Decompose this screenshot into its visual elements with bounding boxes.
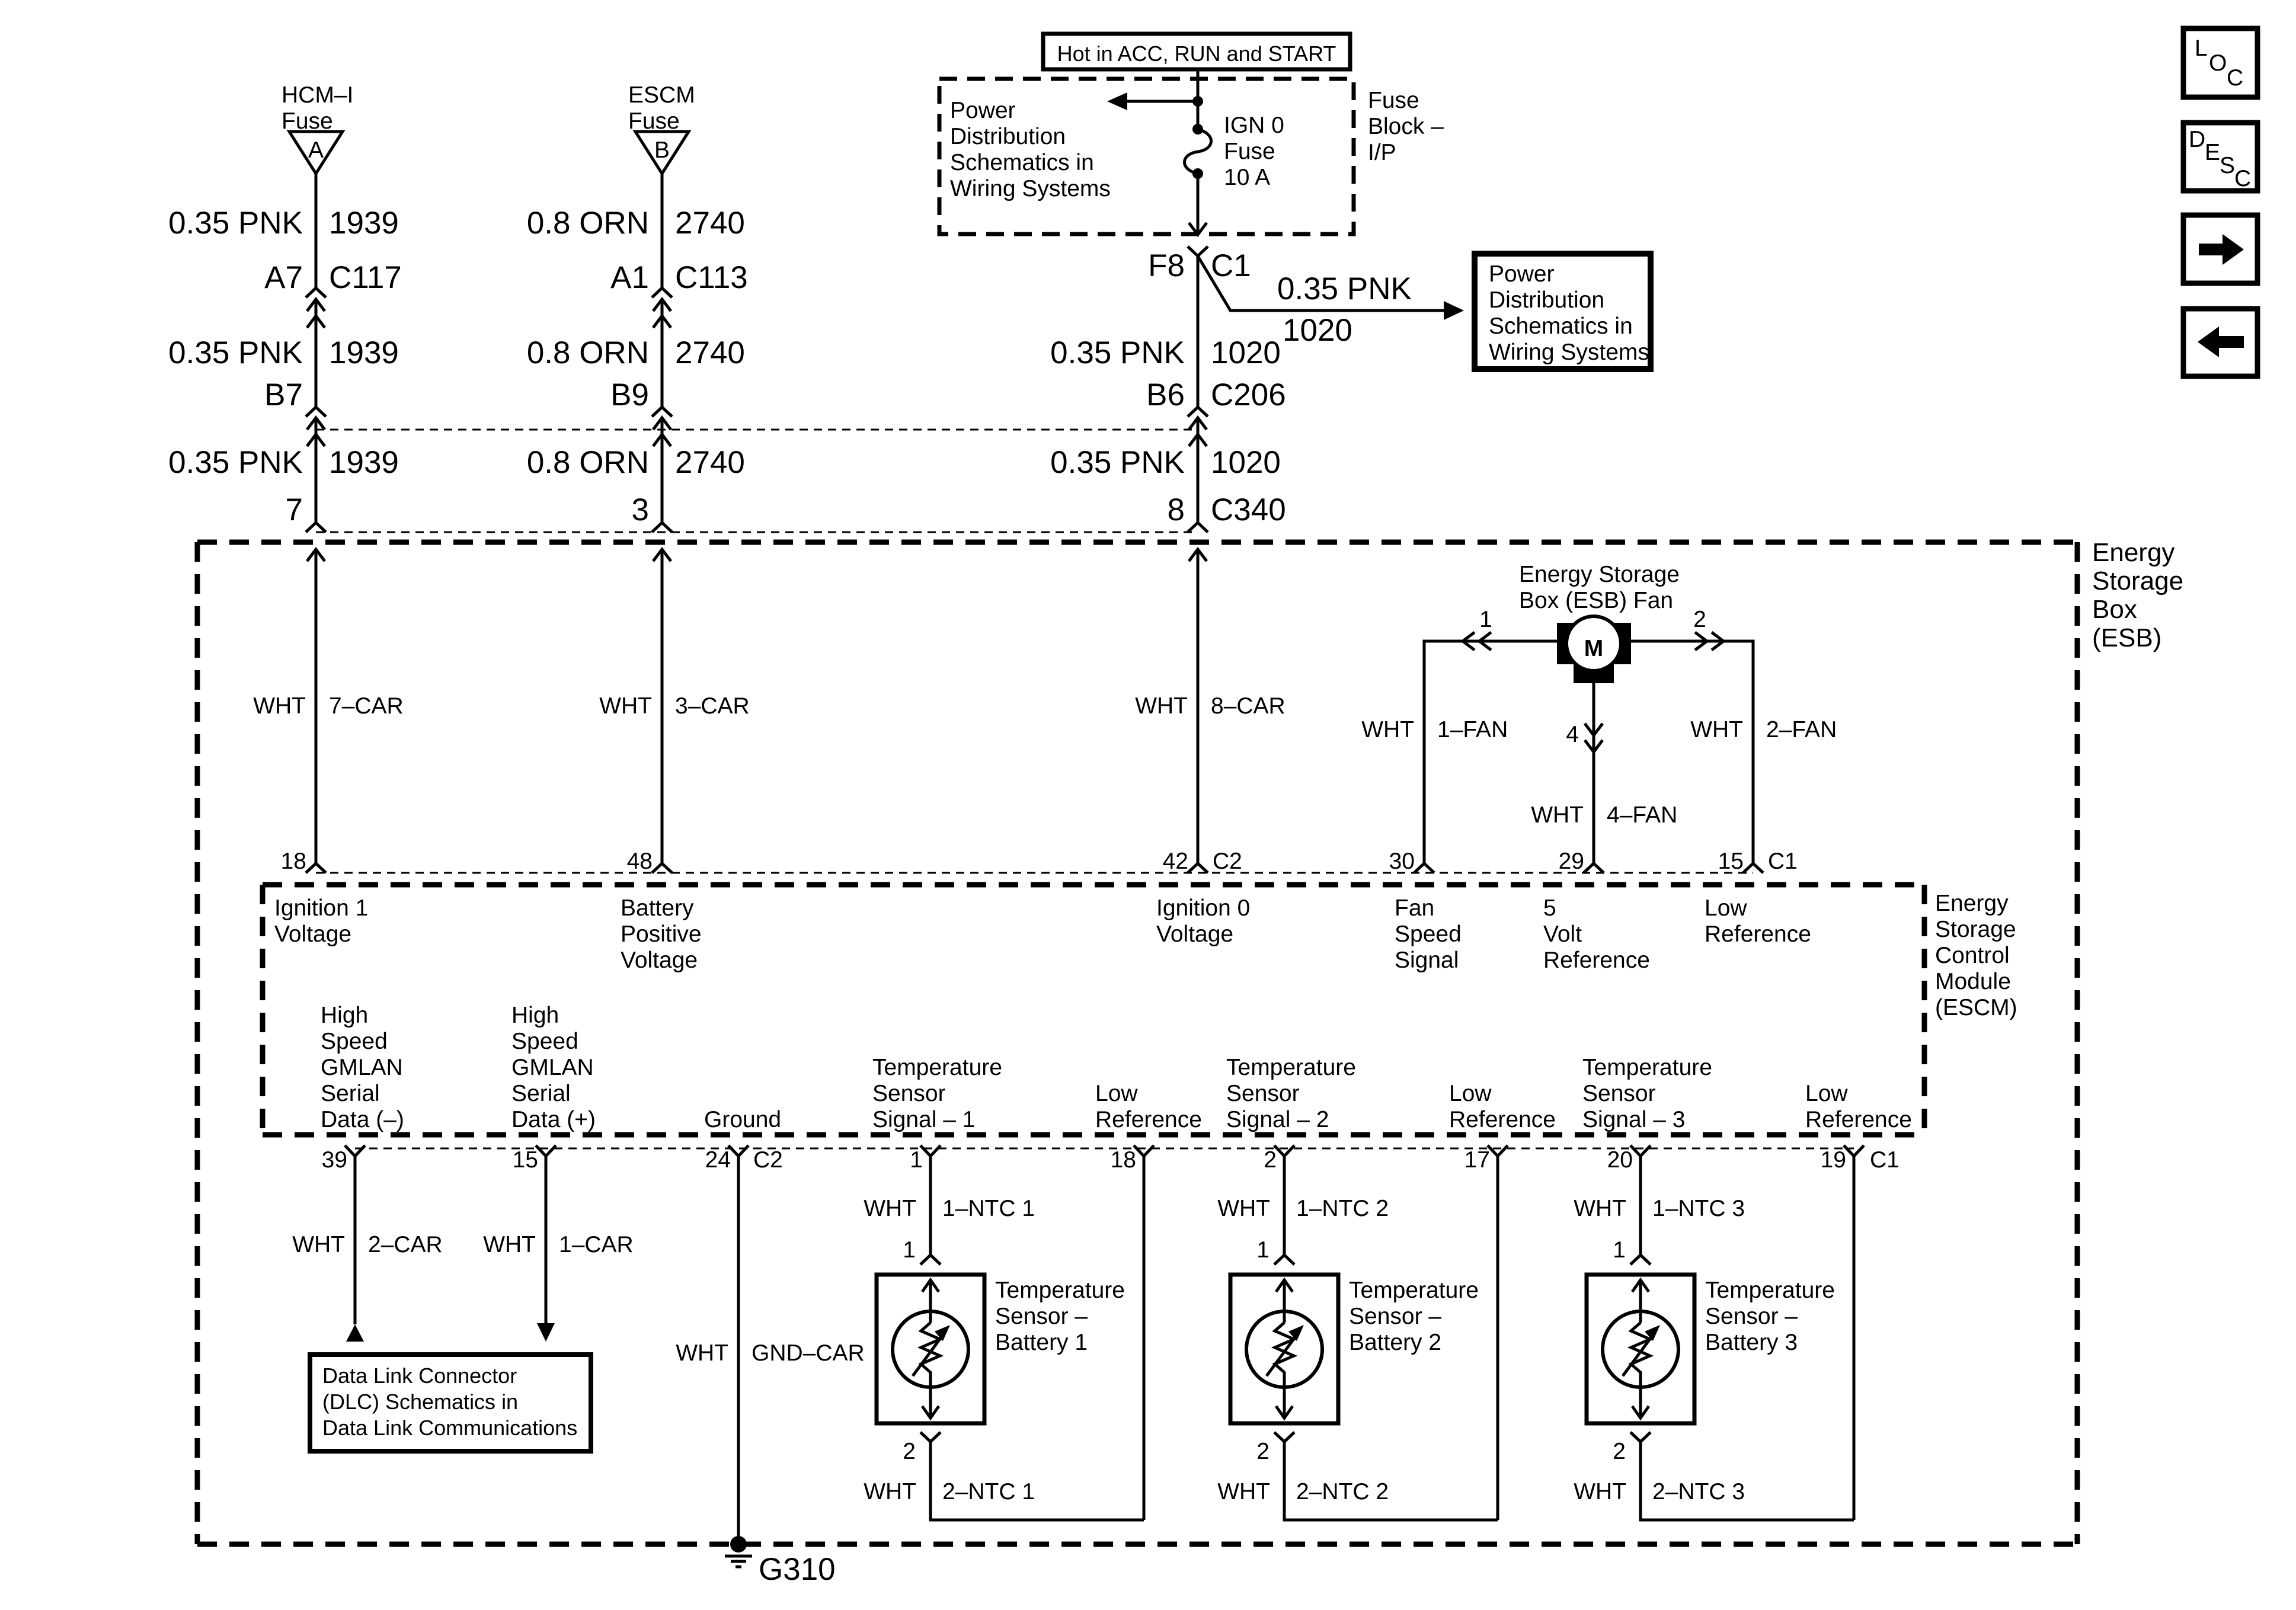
sensor 1 pin 1 fork	[903, 1237, 941, 1265]
svg-text:5: 5	[1543, 895, 1556, 921]
fan wire bottom	[1593, 683, 1595, 863]
arrow up to DLC	[346, 1324, 364, 1342]
svg-text:B7: B7	[264, 377, 303, 412]
wire 3 into ESB	[1189, 549, 1207, 863]
svg-text:Signal – 1: Signal – 1	[872, 1107, 975, 1132]
svg-text:0.8 ORN: 0.8 ORN	[527, 445, 649, 480]
thin dashed line ESCM top pins	[316, 872, 1753, 874]
nav box left arrow	[2183, 309, 2257, 376]
svg-text:Power: Power	[1489, 261, 1555, 287]
svg-text:HCM–I: HCM–I	[282, 82, 353, 108]
svg-text:Temperature: Temperature	[872, 1055, 1002, 1080]
HCM-I Fuse label	[282, 82, 353, 134]
svg-text:D: D	[2189, 127, 2205, 152]
svg-text:Temperature: Temperature	[995, 1278, 1125, 1303]
wire below fuse	[1197, 174, 1200, 235]
svg-text:WHT: WHT	[253, 693, 306, 719]
svg-text:Battery: Battery	[621, 895, 694, 921]
svg-text:Ignition 0: Ignition 0	[1156, 895, 1250, 921]
junction node	[1192, 96, 1203, 107]
Battery Positive Voltage label	[621, 895, 702, 973]
ESCM pin 39 fork	[322, 1145, 365, 1173]
svg-text:Sensor –: Sensor –	[1705, 1304, 1798, 1329]
svg-text:Reference: Reference	[1805, 1107, 1912, 1132]
svg-text:B9: B9	[610, 377, 649, 412]
wire 2 into ESB	[653, 549, 671, 863]
svg-text:WHT: WHT	[864, 1196, 916, 1221]
thin dashed line B7 B9 B6 row	[316, 429, 1198, 431]
High Speed GMLAN Serial Data (-) label col 39	[321, 1003, 404, 1132]
svg-text:24: 24	[705, 1147, 731, 1173]
ESCM pin 18 fork	[281, 849, 326, 874]
svg-text:C2: C2	[753, 1147, 783, 1173]
svg-text:Energy: Energy	[1935, 891, 2009, 916]
nav box LOC	[2183, 28, 2257, 97]
Fuse Block - I/P label	[1368, 88, 1444, 165]
0.8 ORN 2740 label	[527, 335, 745, 370]
svg-text:WHT: WHT	[1574, 1196, 1626, 1221]
svg-text:WHT: WHT	[1531, 802, 1584, 828]
chevrons fan pin 2	[1693, 607, 1723, 650]
wire 3 segment below F8	[1197, 256, 1200, 407]
Energy Storage Control Module (ESCM) label	[1935, 891, 2017, 1020]
Energy Storage Control Module ESCM dashed border	[263, 885, 1924, 1135]
wire 3 third segment	[1197, 418, 1200, 523]
0.35 PNK 1939 label	[168, 335, 399, 370]
Low Reference label col 19	[1805, 1081, 1912, 1132]
wire 1 into ESB	[307, 549, 325, 863]
svg-text:Low: Low	[1705, 895, 1747, 921]
svg-text:18: 18	[1111, 1147, 1136, 1173]
0.8 ORN 2740 label	[527, 445, 745, 480]
svg-text:2–FAN: 2–FAN	[1766, 717, 1837, 742]
wire 1-NTC 1	[929, 1156, 932, 1255]
0.35 PNK 1020 label	[1050, 445, 1281, 480]
svg-text:(DLC) Schematics in: (DLC) Schematics in	[322, 1390, 518, 1414]
Temperature Sensor Signal - 3 label	[1582, 1055, 1712, 1132]
connector B7	[264, 377, 326, 446]
ESCM pin 48 fork	[627, 849, 672, 874]
thin dashed line ESCM bottom pins	[355, 1148, 1854, 1150]
sensor 2 pin 1 fork	[1256, 1237, 1294, 1265]
connector A7 C117	[264, 260, 402, 328]
svg-text:Speed: Speed	[1395, 921, 1462, 947]
svg-text:1: 1	[910, 1147, 923, 1173]
Temperature Sensor Battery 1 label	[995, 1278, 1125, 1355]
svg-text:WHT: WHT	[1135, 693, 1188, 719]
svg-text:High: High	[511, 1003, 559, 1028]
svg-text:1–NTC 1: 1–NTC 1	[942, 1196, 1035, 1221]
svg-text:1: 1	[1479, 607, 1492, 632]
svg-text:Schematics in: Schematics in	[950, 150, 1094, 175]
svg-text:2: 2	[903, 1439, 916, 1464]
svg-text:A1: A1	[610, 260, 649, 295]
Temperature Sensor Signal - 2 label	[1226, 1055, 1356, 1132]
svg-text:IGN 0: IGN 0	[1224, 113, 1284, 138]
wire 1 upper segment	[315, 174, 318, 288]
svg-text:C1: C1	[1870, 1147, 1900, 1173]
svg-text:0.8 ORN: 0.8 ORN	[527, 206, 649, 241]
WHT 3-CAR label	[599, 693, 750, 719]
low reference wire 1	[1143, 1156, 1146, 1520]
connector pin 3	[632, 492, 672, 532]
svg-text:Reference: Reference	[1095, 1107, 1202, 1132]
nav box DESC	[2183, 123, 2257, 191]
svg-text:Serial: Serial	[511, 1081, 571, 1106]
chevrons fan pin 1	[1463, 607, 1492, 650]
WHT 2-NTC 2 label	[1217, 1479, 1389, 1505]
svg-text:29: 29	[1559, 849, 1584, 874]
svg-text:WHT: WHT	[676, 1340, 728, 1366]
ESCM pin 20 fork	[1607, 1145, 1651, 1173]
svg-text:Distribution: Distribution	[950, 124, 1066, 149]
svg-text:2740: 2740	[675, 445, 745, 480]
svg-text:(ESCM): (ESCM)	[1935, 995, 2017, 1020]
svg-text:20: 20	[1607, 1147, 1633, 1173]
svg-text:Sensor –: Sensor –	[995, 1304, 1088, 1329]
svg-text:0.35 PNK: 0.35 PNK	[1050, 445, 1185, 480]
ground wire GND-CAR	[737, 1156, 740, 1544]
ESCM pin 17 fork (low ref 2)	[1464, 1145, 1508, 1173]
svg-text:Low: Low	[1449, 1081, 1492, 1106]
svg-text:GMLAN: GMLAN	[321, 1055, 403, 1080]
svg-text:2–CAR: 2–CAR	[368, 1232, 443, 1257]
connector F8 C1 fork	[1188, 247, 1208, 256]
svg-text:Battery 2: Battery 2	[1349, 1330, 1441, 1355]
svg-text:17: 17	[1464, 1147, 1490, 1173]
wire 1-NTC 3	[1639, 1156, 1642, 1255]
svg-text:C1: C1	[1211, 248, 1251, 283]
Fuse Block - I/P dashed box	[939, 79, 1354, 234]
svg-text:Wiring Systems: Wiring Systems	[950, 176, 1111, 201]
svg-text:1–CAR: 1–CAR	[559, 1232, 634, 1257]
low reference wire 3	[1853, 1156, 1856, 1520]
svg-text:Voltage: Voltage	[621, 948, 698, 973]
svg-text:Block –: Block –	[1368, 114, 1444, 139]
fuse triangle B	[635, 132, 689, 174]
WHT 2-FAN label	[1690, 717, 1837, 742]
IGN 0 Fuse 10 A label	[1224, 113, 1284, 190]
sensor 3 pin 1 fork	[1613, 1237, 1651, 1265]
svg-text:7: 7	[286, 492, 303, 527]
svg-text:Temperature: Temperature	[1349, 1278, 1479, 1303]
fuse triangle A	[289, 132, 343, 174]
WHT 8-CAR label	[1135, 693, 1285, 719]
High Speed GMLAN Serial Data (+) label col 15	[511, 1003, 596, 1132]
WHT GND-CAR label	[676, 1340, 865, 1366]
Low Reference label	[1705, 895, 1811, 947]
svg-text:2740: 2740	[675, 206, 745, 241]
Temperature Sensor Battery 2 label	[1349, 1278, 1479, 1355]
svg-text:0.8 ORN: 0.8 ORN	[527, 335, 649, 370]
WHT 1-CAR label	[483, 1232, 634, 1257]
svg-text:Wiring Systems: Wiring Systems	[1489, 340, 1649, 365]
svg-text:S: S	[2220, 153, 2235, 178]
svg-text:Data Link Communications: Data Link Communications	[322, 1416, 577, 1440]
svg-text:C117: C117	[329, 260, 402, 295]
fan wire left	[1424, 641, 1557, 863]
svg-text:Ignition 1: Ignition 1	[274, 895, 368, 921]
svg-text:Energy: Energy	[2092, 538, 2175, 567]
svg-text:B6: B6	[1146, 377, 1185, 412]
ESCM pin 15 fork (serial data +)	[513, 1145, 556, 1173]
svg-text:0.35 PNK: 0.35 PNK	[168, 335, 303, 370]
svg-text:Hot in ACC, RUN and START: Hot in ACC, RUN and START	[1057, 41, 1336, 66]
svg-text:1939: 1939	[329, 445, 399, 480]
svg-text:30: 30	[1389, 849, 1415, 874]
svg-text:C206: C206	[1211, 377, 1286, 412]
svg-text:Storage: Storage	[2092, 566, 2183, 596]
ground G310	[725, 1536, 752, 1567]
Ignition 1 Voltage label	[274, 895, 368, 947]
svg-text:8: 8	[1168, 492, 1185, 527]
temperature sensor battery 2	[1230, 1275, 1338, 1423]
chevrons fan pin 4	[1566, 722, 1603, 752]
svg-text:E: E	[2205, 140, 2220, 165]
Fan Speed Signal label	[1395, 895, 1462, 973]
svg-text:2740: 2740	[675, 335, 745, 370]
Low Reference label col 18	[1095, 1081, 1202, 1132]
svg-text:L: L	[2195, 36, 2208, 61]
svg-text:Sensor –: Sensor –	[1349, 1304, 1441, 1329]
svg-text:1: 1	[1256, 1237, 1269, 1263]
5 Volt Reference label	[1543, 895, 1650, 973]
svg-text:42: 42	[1163, 849, 1188, 874]
svg-text:2–NTC 3: 2–NTC 3	[1652, 1479, 1745, 1505]
Hot in ACC RUN and START box	[1043, 34, 1350, 69]
svg-text:2–NTC 1: 2–NTC 1	[942, 1479, 1035, 1505]
WHT 7-CAR label	[253, 693, 404, 719]
svg-text:Ground: Ground	[704, 1107, 781, 1132]
svg-text:0.35 PNK: 0.35 PNK	[1277, 271, 1412, 306]
svg-text:Data (+): Data (+)	[511, 1107, 596, 1132]
svg-text:4: 4	[1566, 722, 1579, 747]
svg-text:1–FAN: 1–FAN	[1437, 717, 1508, 742]
svg-text:F8: F8	[1148, 248, 1185, 283]
wire 2 third segment	[661, 418, 664, 523]
fan motor M1	[1557, 616, 1631, 683]
0.35 PNK 1939 label	[168, 445, 399, 480]
svg-text:O: O	[2209, 50, 2227, 76]
svg-text:Reference: Reference	[1543, 948, 1650, 973]
svg-text:Fuse: Fuse	[1368, 88, 1419, 113]
svg-text:Sensor: Sensor	[872, 1081, 946, 1106]
svg-text:Speed: Speed	[321, 1029, 388, 1054]
svg-text:2–NTC 2: 2–NTC 2	[1296, 1479, 1389, 1505]
svg-text:M: M	[1584, 636, 1604, 661]
svg-text:Storage: Storage	[1935, 917, 2016, 942]
nav box right arrow	[2183, 215, 2257, 283]
arrow down to DLC	[537, 1323, 555, 1342]
WHT 1-NTC 1 label	[864, 1196, 1035, 1221]
sensor 1 pin 2 fork	[903, 1432, 941, 1464]
svg-text:Temperature: Temperature	[1705, 1278, 1835, 1303]
wire 1 third segment	[315, 418, 318, 523]
svg-text:Data Link Connector: Data Link Connector	[322, 1363, 517, 1388]
ESCM Fuse label	[628, 82, 695, 134]
svg-text:WHT: WHT	[292, 1232, 345, 1257]
svg-text:Battery 1: Battery 1	[995, 1330, 1088, 1355]
svg-text:Distribution: Distribution	[1489, 287, 1604, 313]
WHT 2-CAR label	[292, 1232, 443, 1257]
svg-text:3: 3	[632, 492, 649, 527]
0.8 ORN 2740 label	[527, 206, 745, 241]
svg-text:8–CAR: 8–CAR	[1211, 693, 1285, 719]
connector B6 C206	[1146, 377, 1286, 446]
svg-text:C1: C1	[1768, 849, 1798, 874]
svg-text:G310: G310	[759, 1552, 836, 1587]
svg-text:A: A	[308, 137, 324, 163]
branch wire to power distribution	[1198, 256, 1464, 320]
sensor 3 pin 2 fork	[1613, 1432, 1651, 1464]
wire 1 second segment	[315, 299, 318, 407]
svg-text:B: B	[654, 137, 670, 163]
svg-text:48: 48	[627, 849, 653, 874]
wire 2 second segment	[661, 299, 664, 407]
WHT 2-NTC 1 label	[864, 1479, 1035, 1505]
ESCM pin 42 C2 fork	[1163, 849, 1242, 874]
svg-text:Low: Low	[1805, 1081, 1848, 1106]
svg-text:WHT: WHT	[599, 693, 652, 719]
svg-text:15: 15	[1718, 849, 1744, 874]
WHT 1-NTC 3 label	[1574, 1196, 1745, 1221]
svg-text:GMLAN: GMLAN	[511, 1055, 594, 1080]
temperature sensor battery 3	[1587, 1275, 1694, 1423]
svg-text:1: 1	[903, 1237, 916, 1263]
sensor 2 pin 2 fork	[1256, 1432, 1294, 1464]
svg-text:A7: A7	[264, 260, 303, 295]
svg-text:Battery 3: Battery 3	[1705, 1330, 1798, 1355]
svg-text:Reference: Reference	[1705, 921, 1811, 947]
fuse IGN 0 10A	[1184, 124, 1211, 179]
svg-text:C: C	[2234, 166, 2251, 191]
svg-text:1020: 1020	[1283, 313, 1352, 348]
svg-text:1–NTC 3: 1–NTC 3	[1652, 1196, 1745, 1221]
connector A1 C113	[610, 260, 748, 328]
ESCM pin 24 C2 fork	[705, 1145, 783, 1173]
Temperature Sensor Signal - 1 label	[872, 1055, 1002, 1132]
connector B9	[610, 377, 672, 446]
svg-text:2: 2	[1693, 607, 1706, 632]
svg-text:C340: C340	[1211, 492, 1286, 527]
svg-text:3–CAR: 3–CAR	[675, 693, 750, 719]
svg-text:Control: Control	[1935, 943, 2010, 968]
wire 1-NTC 2	[1283, 1156, 1286, 1255]
svg-text:19: 19	[1821, 1147, 1846, 1173]
svg-text:Data (–): Data (–)	[321, 1107, 404, 1132]
svg-text:1020: 1020	[1211, 335, 1281, 370]
svg-text:39: 39	[322, 1147, 347, 1173]
svg-text:18: 18	[281, 849, 306, 874]
svg-text:WHT: WHT	[864, 1479, 916, 1505]
svg-text:Box (ESB) Fan: Box (ESB) Fan	[1519, 588, 1673, 613]
Ignition 0 Voltage label	[1156, 895, 1250, 947]
svg-text:Fan: Fan	[1395, 895, 1434, 921]
svg-text:Serial: Serial	[321, 1081, 380, 1106]
svg-text:Signal – 3: Signal – 3	[1582, 1107, 1685, 1132]
svg-text:WHT: WHT	[1217, 1479, 1270, 1505]
svg-text:Sensor: Sensor	[1226, 1081, 1300, 1106]
svg-text:Speed: Speed	[511, 1029, 578, 1054]
WHT 4-FAN label	[1531, 802, 1677, 828]
svg-text:Voltage: Voltage	[1156, 921, 1233, 947]
thin dashed line pin 7 3 8 row	[316, 532, 1198, 533]
svg-text:ESCM: ESCM	[628, 82, 695, 108]
svg-text:Sensor: Sensor	[1582, 1081, 1656, 1106]
svg-text:WHT: WHT	[1217, 1196, 1270, 1221]
svg-text:4–FAN: 4–FAN	[1607, 802, 1677, 828]
svg-text:Fuse: Fuse	[1224, 139, 1275, 164]
0.35 PNK 1939 label	[168, 206, 399, 241]
temperature sensor battery 1	[877, 1275, 984, 1423]
wire arrow to power distribution	[1107, 92, 1198, 110]
ESCM pin 30 fork	[1389, 849, 1434, 874]
svg-text:I/P: I/P	[1368, 140, 1396, 165]
svg-text:2: 2	[1264, 1147, 1277, 1173]
svg-text:Voltage: Voltage	[274, 921, 351, 947]
ESCM pin 18 fork (low ref 1)	[1111, 1145, 1154, 1173]
svg-text:Positive: Positive	[621, 921, 702, 947]
low reference wire 2	[1496, 1156, 1499, 1520]
svg-text:Schematics in: Schematics in	[1489, 313, 1633, 339]
svg-text:1–NTC 2: 1–NTC 2	[1296, 1196, 1389, 1221]
svg-text:GND–CAR: GND–CAR	[752, 1340, 865, 1366]
Energy Storage Box (ESB) Fan label	[1519, 562, 1680, 613]
svg-text:2: 2	[1256, 1439, 1269, 1464]
WHT 1-FAN label	[1361, 717, 1508, 742]
Power Distribution label (in fuse block)	[950, 98, 1111, 201]
svg-text:Module: Module	[1935, 969, 2011, 994]
svg-text:C2: C2	[1213, 849, 1242, 874]
wire from hot box into fuse	[1197, 69, 1200, 129]
ESCM pin 19 C1 fork (low ref 3)	[1821, 1145, 1900, 1173]
wire 2-NTC 3	[1641, 1442, 1854, 1520]
Low Reference label col 17	[1449, 1081, 1556, 1132]
arrow into fuse block bottom	[1189, 223, 1207, 235]
svg-text:Temperature: Temperature	[1226, 1055, 1356, 1080]
wire 2-NTC 2	[1284, 1442, 1498, 1520]
svg-text:1020: 1020	[1211, 445, 1281, 480]
svg-text:10 A: 10 A	[1224, 165, 1270, 190]
svg-text:1939: 1939	[329, 335, 399, 370]
svg-text:Volt: Volt	[1543, 921, 1582, 947]
Power Distribution Schematics box (right)	[1475, 254, 1651, 369]
svg-text:Box: Box	[2092, 595, 2137, 624]
connector pin 8 C340	[1168, 492, 1286, 532]
svg-text:7–CAR: 7–CAR	[329, 693, 404, 719]
svg-text:WHT: WHT	[1574, 1479, 1626, 1505]
serial data wire 1-CAR	[545, 1156, 548, 1323]
svg-text:15: 15	[513, 1147, 538, 1173]
svg-text:Energy Storage: Energy Storage	[1519, 562, 1680, 587]
svg-text:High: High	[321, 1003, 368, 1028]
svg-text:C: C	[2227, 65, 2243, 91]
Data Link Connector box	[310, 1355, 591, 1451]
connector pin 7	[286, 492, 326, 532]
svg-text:1939: 1939	[329, 206, 399, 241]
svg-text:Signal – 2: Signal – 2	[1226, 1107, 1329, 1132]
svg-text:1: 1	[1613, 1237, 1626, 1263]
svg-text:0.35 PNK: 0.35 PNK	[1050, 335, 1185, 370]
ESCM pin 2 fork	[1264, 1145, 1294, 1173]
svg-text:Signal: Signal	[1395, 948, 1459, 973]
ESCM pin 29 fork	[1559, 849, 1604, 874]
svg-text:2: 2	[1613, 1439, 1626, 1464]
fan wire right	[1631, 641, 1753, 863]
ESCM pin 1 fork	[910, 1145, 941, 1173]
0.35 PNK 1020 label	[1050, 335, 1281, 370]
svg-text:Temperature: Temperature	[1582, 1055, 1712, 1080]
